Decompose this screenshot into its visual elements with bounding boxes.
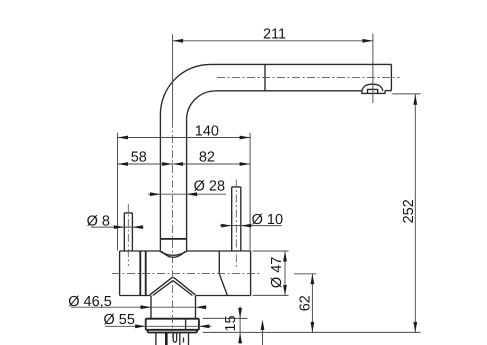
svg-text:Ø 8: Ø 8 — [87, 213, 110, 229]
svg-text:Ø 47: Ø 47 — [269, 257, 285, 288]
svg-text:211: 211 — [263, 26, 286, 42]
svg-text:Ø 28: Ø 28 — [194, 179, 225, 195]
svg-text:Ø 46,5: Ø 46,5 — [68, 294, 112, 310]
svg-text:252: 252 — [401, 199, 417, 223]
svg-text:15: 15 — [223, 315, 239, 331]
svg-text:140: 140 — [195, 123, 219, 139]
svg-text:58: 58 — [131, 150, 147, 166]
svg-text:82: 82 — [199, 150, 215, 166]
svg-text:62: 62 — [298, 295, 314, 311]
svg-text:Ø 10: Ø 10 — [252, 212, 283, 228]
svg-text:Ø 55: Ø 55 — [103, 312, 134, 328]
